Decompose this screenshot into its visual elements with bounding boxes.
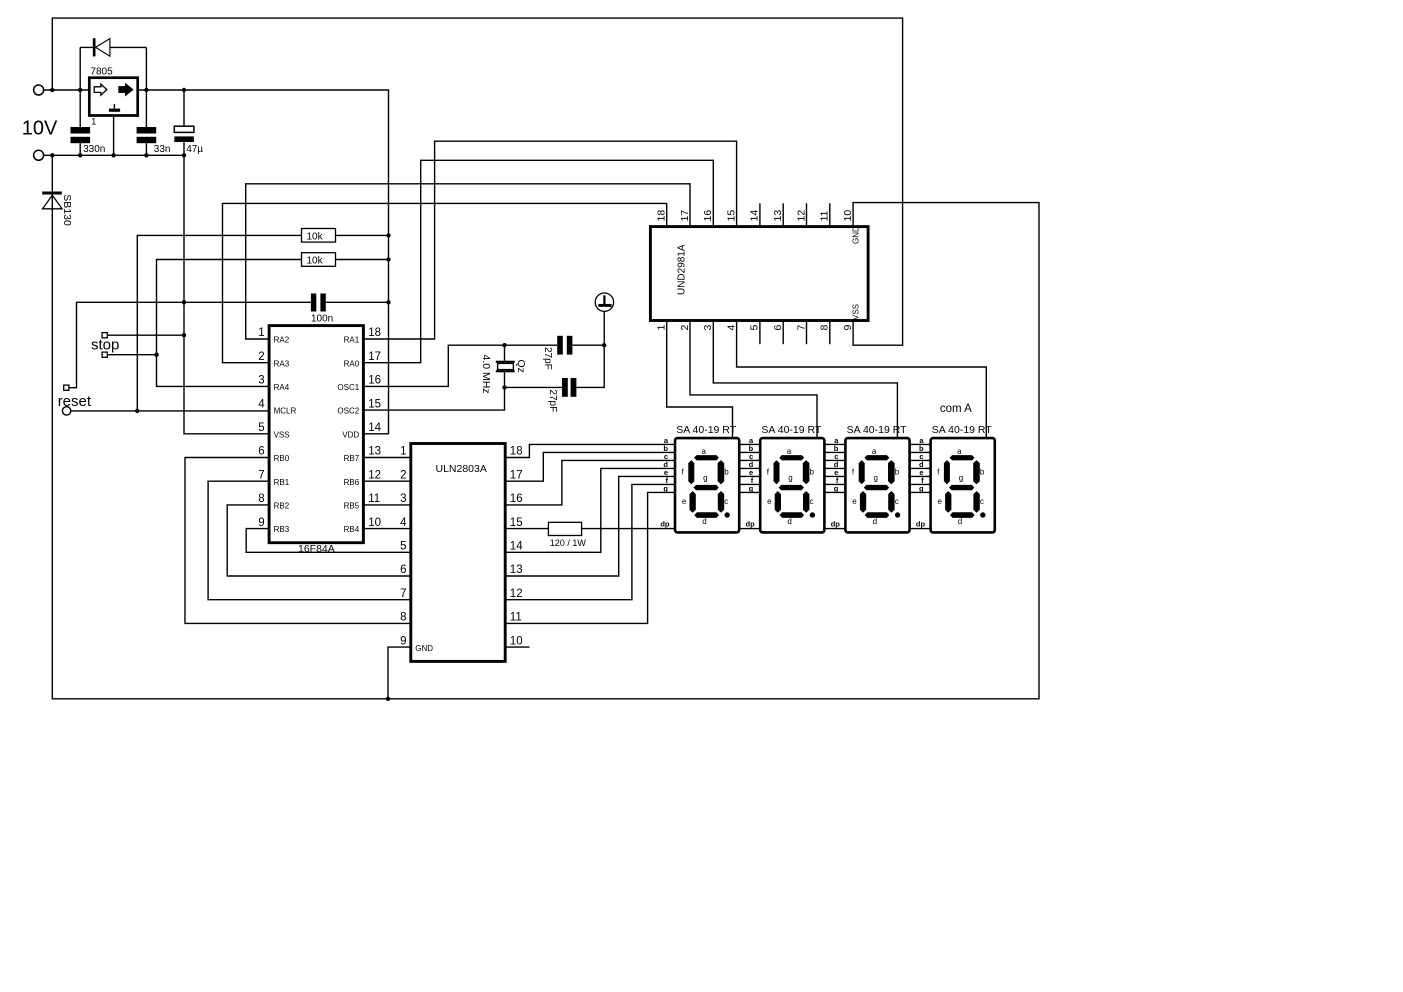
- crystal Qz 4.0 MHz: [504, 345, 506, 361]
- svg-text:7: 7: [795, 325, 807, 331]
- svg-text:SA 40-19 RT: SA 40-19 RT: [761, 424, 822, 436]
- svg-text:g: g: [874, 474, 878, 483]
- svg-text:8: 8: [400, 612, 406, 624]
- diode D1 (over 7805) cathode bar: [93, 38, 96, 56]
- wire: ULN 18 to segment a: [505, 444, 675, 457]
- svg-text:17: 17: [510, 469, 523, 481]
- svg-text:SA 40-19 RT: SA 40-19 RT: [932, 424, 993, 436]
- node: [386, 300, 390, 304]
- svg-text:8: 8: [258, 493, 264, 505]
- wire: lower 27pF to +5V riser: [576, 312, 604, 388]
- svg-text:g: g: [788, 474, 792, 483]
- svg-text:7: 7: [258, 469, 264, 481]
- diode D1 triangle: [96, 39, 110, 57]
- svg-text:c: c: [895, 497, 899, 506]
- svg-text:b: b: [895, 468, 900, 477]
- wire: ULN 17 to segment b: [505, 452, 675, 481]
- node: [502, 385, 506, 389]
- svg-text:13: 13: [772, 210, 784, 222]
- display 2 segment e: [775, 491, 781, 513]
- svg-text:5: 5: [400, 541, 406, 553]
- svg-text:6: 6: [400, 564, 406, 576]
- svg-text:Qz: Qz: [515, 360, 527, 373]
- wire: bypass diode branch: [80, 47, 146, 90]
- wire: 7805 output rail to VDD riser: [138, 90, 389, 434]
- svg-text:RA2: RA2: [274, 336, 290, 345]
- node: [78, 153, 82, 157]
- capacitor 100n: [69, 302, 311, 387]
- svg-text:1: 1: [400, 446, 406, 458]
- IC U1 16F84A box: [269, 326, 363, 543]
- svg-text:9: 9: [258, 517, 264, 529]
- display 1 segment g: [693, 485, 718, 490]
- svg-text:14: 14: [749, 210, 761, 222]
- wire: UND pin 4 to display 4 com A: [737, 321, 987, 439]
- wire: PIC RA4 (3) to stop / R2: [157, 260, 302, 387]
- display 3 segment g: [864, 485, 889, 490]
- wire: PIC RB6 (12) to ULN pin 2: [363, 480, 410, 482]
- wire: PIC RB0 (6) to ULN pin 8: [185, 458, 411, 624]
- svg-text:RA4: RA4: [274, 383, 290, 392]
- svg-text:VSS: VSS: [851, 304, 860, 320]
- svg-text:g: g: [663, 484, 668, 493]
- diode SB130 cathode bar: [42, 192, 62, 195]
- svg-text:g: g: [834, 484, 839, 493]
- svg-text:27pF: 27pF: [547, 389, 558, 412]
- svg-text:10k: 10k: [307, 256, 324, 267]
- node: [111, 153, 115, 157]
- wire: 7805 gnd pin to rail: [113, 116, 115, 156]
- display 4 segment c: [973, 491, 979, 513]
- wire: reset to MCLR: [71, 410, 269, 412]
- regulator U 7805 box: [89, 78, 137, 116]
- svg-text:12: 12: [368, 469, 381, 481]
- svg-text:1: 1: [258, 327, 264, 339]
- svg-text:17: 17: [679, 210, 691, 222]
- svg-text:4: 4: [400, 517, 407, 529]
- svg-text:MCLR: MCLR: [274, 407, 297, 416]
- display 3 segment b: [888, 460, 895, 484]
- display 2 segment d: [780, 512, 805, 518]
- svg-text:7805: 7805: [90, 66, 113, 77]
- diode SB130 triangle: [43, 195, 63, 209]
- wire: ULN 12 to segment f: [505, 484, 675, 599]
- node: [182, 88, 186, 92]
- wire: UND pin 1 to display 1 com A: [667, 321, 733, 439]
- svg-text:12: 12: [510, 588, 523, 600]
- svg-text:15: 15: [510, 517, 523, 529]
- wire: [107, 354, 156, 356]
- svg-text:ULN2803A: ULN2803A: [436, 463, 487, 475]
- svg-text:com A: com A: [940, 403, 972, 415]
- svg-text:VSS: VSS: [274, 430, 290, 439]
- svg-text:RB6: RB6: [344, 478, 360, 487]
- svg-text:d: d: [958, 517, 962, 526]
- 7805 internal gnd symbol: [113, 104, 115, 109]
- wire: ULN 15 to dp through resistor: [505, 528, 548, 530]
- svg-text:a: a: [787, 447, 792, 456]
- 7805 output arrow (solid): [119, 84, 133, 95]
- svg-text:RB5: RB5: [344, 502, 360, 511]
- display 1 SA 40-19 RT box: [675, 438, 739, 532]
- svg-text:RB3: RB3: [274, 525, 290, 534]
- svg-text:stop: stop: [91, 337, 119, 354]
- svg-text:9: 9: [400, 635, 406, 647]
- svg-text:2: 2: [679, 325, 691, 331]
- node: [182, 333, 186, 337]
- svg-text:4: 4: [725, 325, 737, 331]
- terminal: +10V input: [34, 85, 44, 95]
- svg-text:g: g: [703, 474, 707, 483]
- node: [386, 257, 390, 261]
- IC U3 UND2981A box: [650, 227, 868, 321]
- display 3 segment e: [860, 491, 866, 513]
- wire: PIC RB2 (8) to ULN pin 6: [227, 505, 411, 576]
- svg-text:11: 11: [510, 612, 522, 624]
- terminal: 0V input: [34, 150, 44, 160]
- wire: PIC RB5 (11) to ULN pin 3: [363, 504, 410, 506]
- wire: ULN 14 to segment d: [505, 468, 675, 552]
- svg-text:3: 3: [400, 493, 406, 505]
- svg-text:e: e: [767, 497, 772, 506]
- svg-text:14: 14: [510, 541, 523, 553]
- display 1 segment f: [688, 460, 694, 484]
- svg-text:27pF: 27pF: [542, 347, 553, 370]
- svg-text:VDD: VDD: [342, 430, 359, 439]
- wire: ULN GND pin 9 to bottom rail: [388, 647, 411, 699]
- svg-text:1: 1: [656, 325, 668, 331]
- capacitor 47u (polarized): [183, 90, 185, 126]
- display 3 segment c: [888, 491, 894, 513]
- capacitor C 27pF upper: [557, 336, 563, 355]
- svg-text:7: 7: [400, 588, 406, 600]
- display 2 segment f: [774, 460, 780, 484]
- ULN pin 10 stub: [505, 646, 529, 648]
- svg-text:120 / 1W: 120 / 1W: [550, 538, 587, 548]
- svg-text:16: 16: [368, 375, 381, 387]
- svg-text:9: 9: [842, 325, 854, 331]
- svg-text:6: 6: [772, 325, 784, 331]
- svg-text:dp: dp: [746, 519, 756, 528]
- display 4 segment b: [973, 460, 980, 484]
- display bus gap segments: [739, 443, 760, 445]
- display 4 SA 40-19 RT box: [931, 438, 995, 532]
- display 4 segment e: [945, 491, 951, 513]
- node: [386, 697, 390, 701]
- display 4 segment d: [950, 512, 975, 518]
- svg-text:RB4: RB4: [344, 525, 360, 534]
- svg-text:4.0 MHz: 4.0 MHz: [480, 355, 492, 394]
- svg-text:dp: dp: [916, 519, 926, 528]
- svg-text:a: a: [872, 447, 877, 456]
- svg-text:11: 11: [819, 210, 831, 221]
- svg-text:RB0: RB0: [274, 454, 290, 463]
- resistor R2 10k: [336, 259, 389, 261]
- display 3 SA 40-19 RT box: [845, 438, 909, 532]
- display 4 segment g: [949, 485, 974, 490]
- svg-text:b: b: [810, 468, 815, 477]
- svg-text:12: 12: [795, 210, 807, 222]
- wire: UND pin 2 to display 2 com A: [690, 321, 817, 439]
- switch terminal: stop upper: [102, 333, 107, 338]
- svg-text:5: 5: [749, 325, 761, 331]
- 7805 input arrow (open): [94, 84, 107, 95]
- node: [144, 88, 148, 92]
- svg-text:8: 8: [819, 325, 831, 331]
- display 4 segment f: [944, 460, 950, 484]
- wire: bottom rail to caps: [43, 154, 184, 156]
- svg-text:GND: GND: [415, 644, 433, 653]
- node: junction on GND input: [50, 153, 54, 157]
- display 2 segment b: [803, 460, 810, 484]
- svg-text:OSC2: OSC2: [337, 407, 359, 416]
- node: [154, 353, 158, 357]
- svg-text:10: 10: [842, 210, 854, 222]
- svg-text:13: 13: [510, 564, 523, 576]
- svg-text:d: d: [702, 517, 706, 526]
- switch terminal: stop lower: [102, 352, 107, 357]
- svg-text:16: 16: [702, 210, 714, 222]
- svg-text:4: 4: [258, 398, 265, 410]
- svg-text:RB1: RB1: [274, 478, 290, 487]
- svg-text:3: 3: [258, 375, 264, 387]
- display 4 dp: [980, 512, 985, 517]
- wire: PIC RB3 (9) to ULN pin 5: [246, 529, 411, 553]
- svg-text:SA 40-19 RT: SA 40-19 RT: [847, 424, 908, 436]
- svg-text:e: e: [938, 497, 943, 506]
- capacitor 330n: [79, 90, 81, 127]
- resistor R3 120/1W: [548, 522, 581, 535]
- svg-text:g: g: [919, 484, 924, 493]
- wire: ULN 11 to segment g: [505, 492, 675, 623]
- wire: PIC RA1 (18) to UND2981A pin 15: [363, 141, 736, 339]
- svg-text:SA 40-19 RT: SA 40-19 RT: [676, 424, 737, 436]
- svg-text:2: 2: [258, 351, 264, 363]
- svg-text:c: c: [980, 497, 984, 506]
- svg-text:10: 10: [368, 517, 381, 529]
- svg-text:dp: dp: [660, 519, 670, 528]
- svg-text:c: c: [724, 497, 728, 506]
- display 2 segment g: [779, 485, 804, 490]
- svg-text:18: 18: [656, 210, 668, 222]
- node: junction on +10V input: [50, 88, 54, 92]
- wire: ULN 16 to segment c: [505, 460, 675, 505]
- svg-text:6: 6: [258, 446, 264, 458]
- svg-text:47µ: 47µ: [186, 144, 203, 155]
- display 1 segment b: [718, 460, 725, 484]
- display 3 segment f: [859, 460, 865, 484]
- svg-text:d: d: [787, 517, 791, 526]
- node: [135, 409, 139, 413]
- wire: [43, 89, 89, 91]
- svg-text:18: 18: [510, 446, 523, 458]
- svg-text:330n: 330n: [83, 144, 105, 155]
- node: [78, 88, 82, 92]
- svg-text:RB7: RB7: [344, 454, 360, 463]
- switch terminal: reset upper (square): [64, 385, 69, 390]
- svg-text:OSC1: OSC1: [337, 383, 359, 392]
- svg-text:reset: reset: [58, 393, 92, 410]
- wire: crystal top to 27pF right junction: [572, 344, 604, 346]
- wire: PIC OSC2 (15) to crystal bottom: [363, 387, 562, 410]
- node: [182, 153, 186, 157]
- display 3 segment d: [865, 512, 890, 518]
- svg-text:5: 5: [258, 422, 264, 434]
- svg-text:g: g: [959, 474, 963, 483]
- wire: PIC OSC1 (16) to crystal: [363, 345, 557, 386]
- svg-text:10k: 10k: [307, 232, 324, 243]
- svg-text:18: 18: [368, 327, 381, 339]
- svg-text:b: b: [724, 468, 729, 477]
- display 1 segment d: [694, 512, 719, 518]
- +5V supply symbol (earth in circle): [595, 293, 613, 311]
- svg-text:14: 14: [368, 422, 381, 434]
- wire: +10V top rail to UND2981A VSS (pin 9): [52, 18, 902, 345]
- display 1 segment c: [718, 491, 724, 513]
- svg-text:a: a: [957, 447, 962, 456]
- svg-text:11: 11: [368, 493, 380, 505]
- display 2 SA 40-19 RT box: [760, 438, 824, 532]
- capacitor 33n: [145, 90, 147, 127]
- svg-text:c: c: [810, 497, 814, 506]
- svg-text:10: 10: [510, 635, 523, 647]
- UND unconnected top stubs 14-11: [759, 203, 761, 226]
- wire: PIC RA2 (1) to UND2981A pin 17: [246, 184, 690, 339]
- wire: PIC RA3 (2) to UND2981A pin 18: [223, 203, 667, 362]
- wire: PIC RA0 (17) to UND2981A pin 16: [363, 160, 713, 362]
- wire: PIC RB7 (13) to ULN pin 1: [363, 457, 410, 459]
- svg-text:RA0: RA0: [344, 359, 360, 368]
- wire: [107, 334, 184, 336]
- svg-text:UND2981A: UND2981A: [677, 244, 688, 295]
- svg-text:g: g: [749, 484, 754, 493]
- svg-text:13: 13: [368, 446, 381, 458]
- svg-text:100n: 100n: [311, 314, 333, 325]
- resistor R1 10k: [137, 235, 301, 411]
- svg-text:RA3: RA3: [274, 359, 290, 368]
- svg-text:15: 15: [725, 210, 737, 222]
- svg-text:b: b: [980, 468, 985, 477]
- svg-text:16: 16: [510, 493, 523, 505]
- display 2 segment a: [779, 455, 804, 460]
- wire: ULN 13 to segment e: [505, 476, 675, 576]
- display 1 dp: [725, 512, 730, 517]
- svg-text:e: e: [852, 497, 857, 506]
- svg-text:3: 3: [702, 325, 714, 331]
- svg-text:1: 1: [91, 116, 96, 126]
- svg-text:33n: 33n: [154, 144, 171, 155]
- svg-text:e: e: [682, 497, 687, 506]
- svg-text:SB130: SB130: [61, 194, 73, 226]
- svg-text:RB2: RB2: [274, 502, 290, 511]
- svg-text:d: d: [873, 517, 877, 526]
- display 2 dp: [810, 512, 815, 517]
- svg-text:a: a: [702, 447, 707, 456]
- wire: PIC RB1 (7) to ULN pin 7: [208, 481, 411, 600]
- svg-text:15: 15: [368, 398, 381, 410]
- capacitor C 27pF lower: [562, 378, 568, 397]
- node: [502, 343, 506, 347]
- svg-text:10V: 10V: [22, 118, 58, 140]
- display 3 dp: [895, 512, 900, 517]
- node: [144, 153, 148, 157]
- svg-text:17: 17: [368, 351, 381, 363]
- node: [602, 343, 606, 347]
- svg-text:dp: dp: [831, 519, 841, 528]
- wire: GND bottom rail from SB130 to UND2981A GND (pin 10): [52, 155, 1039, 699]
- wire: PIC RB4 (10) to ULN pin 4: [363, 528, 410, 530]
- display 2 segment c: [803, 491, 809, 513]
- display 4 segment a: [950, 455, 975, 460]
- terminal: reset lower (round): [62, 407, 70, 415]
- wire: UND pin 3 to display 3 com A: [713, 321, 897, 439]
- node: [386, 233, 390, 237]
- svg-text:RA1: RA1: [344, 336, 360, 345]
- svg-text:GND: GND: [851, 226, 860, 244]
- node: [182, 300, 186, 304]
- svg-text:2: 2: [400, 469, 406, 481]
- display 1 segment e: [690, 491, 696, 513]
- display 3 segment a: [864, 455, 889, 460]
- display 1 segment a: [694, 455, 719, 460]
- IC U2 ULN2803A box: [411, 444, 505, 662]
- UND unconnected bottom stubs 5-8: [759, 321, 761, 345]
